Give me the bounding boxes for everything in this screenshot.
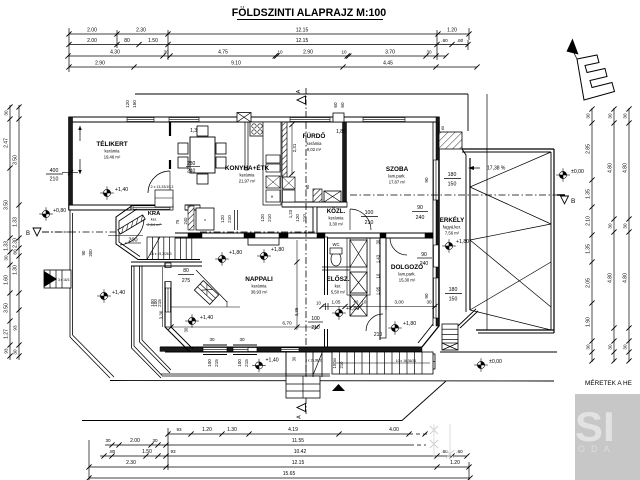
svg-text:30: 30 — [586, 344, 591, 350]
svg-text:90: 90 — [417, 205, 423, 211]
balcony ramp edge diagonal — [458, 309, 476, 326]
svg-text:.60: .60 — [456, 449, 463, 454]
svg-text:4.80: 4.80 — [608, 163, 614, 173]
ramp slope label 17,38% — [468, 166, 474, 170]
level marker pm0,00 right — [556, 168, 570, 182]
wall interior telikert konyha divider — [169, 122, 171, 136]
chair left 2 — [178, 157, 188, 168]
svg-text:A: A — [297, 415, 303, 419]
chair right 1 — [216, 143, 226, 154]
svg-text:30: 30 — [333, 358, 337, 362]
telikert step small — [155, 190, 173, 207]
svg-text:150: 150 — [449, 297, 458, 303]
svg-text:60: 60 — [333, 102, 338, 108]
svg-text:30: 30 — [13, 349, 18, 355]
right dimension chain 2 — [613, 108, 615, 362]
wc toilet — [331, 252, 341, 266]
top dimension chain row 3 — [68, 55, 446, 57]
roof overhang outline above — [135, 93, 468, 95]
balcony outline erkely — [462, 148, 554, 150]
svg-text:120: 120 — [260, 214, 265, 222]
svg-text:3 x 15,38/31: 3 x 15,38/31 — [305, 359, 323, 363]
svg-text:200: 200 — [128, 238, 137, 244]
svg-text:ELŐSZ.: ELŐSZ. — [326, 274, 349, 283]
svg-text:60: 60 — [441, 126, 445, 130]
svg-text:WC: WC — [333, 242, 340, 247]
interior dim vertical furdo 2,31 — [291, 124, 293, 175]
bottom dimension chain row 1 — [168, 433, 409, 435]
terrace outline diagonal southwest — [70, 337, 110, 378]
svg-text:1,05: 1,05 — [332, 300, 341, 305]
svg-text:15,30 m²: 15,30 m² — [399, 278, 416, 283]
bottom dimension block boundary lines — [88, 440, 90, 480]
svg-text:93: 93 — [13, 325, 18, 331]
svg-text:2.00: 2.00 — [130, 438, 140, 444]
svg-text:210: 210 — [50, 177, 59, 183]
door szoba balcony 90/240 — [434, 245, 439, 267]
wall exterior top — [69, 117, 439, 122]
svg-text:2.30: 2.30 — [136, 28, 146, 34]
svg-text:1,23: 1,23 — [288, 209, 293, 218]
svg-text:210: 210 — [339, 361, 344, 369]
kra door swing arc — [120, 219, 144, 245]
kra door dim 200 — [108, 235, 143, 237]
svg-text:210: 210 — [311, 325, 320, 331]
door gap nappali west 80 — [164, 268, 172, 282]
svg-text:1.35: 1.35 — [586, 189, 592, 199]
door dolgozo north arc — [390, 238, 407, 255]
wall interior hall spine y233 — [175, 232, 433, 234]
svg-text:80: 80 — [13, 249, 18, 255]
svg-text:3,35: 3,35 — [294, 307, 299, 316]
svg-text:30: 30 — [586, 113, 591, 119]
pillar hatched top right — [439, 132, 462, 149]
svg-text:TÉLIKERT: TÉLIKERT — [96, 139, 127, 148]
wall kra stair block south — [131, 261, 202, 263]
furdo washer boxes — [283, 177, 296, 189]
svg-text:FÖLDSZINTI ALAPRAJZ M:100: FÖLDSZINTI ALAPRAJZ M:100 — [232, 6, 387, 19]
svg-text:200: 200 — [88, 249, 93, 257]
svg-text:100: 100 — [207, 359, 212, 367]
svg-text:3,30: 3,30 — [159, 310, 164, 319]
wardrobe X box 2 — [350, 272, 367, 293]
svg-text:lam.park.: lam.park. — [388, 174, 405, 179]
svg-text:SI: SI — [575, 403, 615, 450]
window boxes left of entry — [248, 348, 257, 352]
svg-text:30: 30 — [184, 327, 189, 332]
svg-text:7,56 m²: 7,56 m² — [445, 231, 460, 236]
kitchen stove — [250, 122, 264, 136]
window nappali south 2 — [233, 348, 257, 352]
wall interior konyha west partial — [245, 122, 248, 170]
stair terrace left small — [44, 270, 71, 288]
svg-text:60: 60 — [340, 102, 345, 108]
pillar top wall 60x60 — [333, 113, 344, 122]
kra cabinet box — [196, 208, 214, 230]
stair balcony small — [442, 324, 458, 350]
svg-text:210: 210 — [302, 214, 307, 222]
svg-text:1.33: 1.33 — [13, 217, 19, 227]
top dimension chain row 1 — [69, 33, 469, 35]
svg-text:3,00: 3,00 — [394, 300, 404, 306]
svg-text:100: 100 — [311, 316, 320, 322]
svg-text:16 x 19,3/26,3: 16 x 19,3/26,3 — [150, 252, 172, 256]
level marker +0,80 left — [39, 207, 53, 221]
wall dolgozo southeast chamfer — [422, 326, 439, 347]
svg-text:1.20: 1.20 — [450, 460, 460, 466]
svg-text:30: 30 — [292, 356, 297, 361]
svg-text:90: 90 — [421, 252, 427, 258]
svg-text:1.60: 1.60 — [4, 275, 10, 285]
wall hatched konyha furdo divider — [282, 122, 287, 177]
svg-text:2 x 13,33/19,3: 2 x 13,33/19,3 — [151, 185, 174, 189]
door gap elosz west — [324, 295, 328, 329]
svg-text:+1,80: +1,80 — [346, 306, 359, 312]
wall interior furdo szoba divider — [343, 122, 347, 207]
section line A-A vertical — [305, 122, 307, 398]
window szoba right 180/150 — [434, 160, 439, 200]
svg-text:1.27: 1.27 — [4, 329, 10, 339]
svg-text:2.30: 2.30 — [126, 460, 136, 466]
wall kra north east piece — [185, 205, 200, 210]
svg-text:60: 60 — [354, 300, 359, 305]
wardrobe X box 3 — [350, 295, 367, 316]
wall nappali west — [165, 263, 171, 327]
svg-text:80: 80 — [183, 268, 189, 274]
svg-text:11.55: 11.55 — [292, 438, 304, 444]
svg-text:17,87 m²: 17,87 m² — [389, 180, 406, 185]
svg-text:+1,40: +1,40 — [112, 290, 125, 296]
terrace outline outer left — [69, 210, 71, 337]
svg-text:4.00: 4.00 — [389, 427, 399, 433]
entrance arrow filled — [332, 384, 345, 391]
wardrobe X box 1 — [350, 240, 367, 267]
svg-text:2.47: 2.47 — [4, 138, 10, 148]
svg-text:15.65: 15.65 — [283, 471, 296, 477]
level marker +1,80 elosz south — [332, 306, 346, 320]
entry porch walls — [285, 352, 287, 376]
svg-text:10: 10 — [376, 273, 381, 278]
right dimension chain 3 — [628, 108, 630, 362]
svg-text:180: 180 — [449, 287, 458, 293]
wall dolgozo west — [380, 238, 386, 338]
svg-text:+1,40: +1,40 — [200, 315, 213, 321]
interior dim vertical nappali 3,30 — [162, 267, 164, 327]
window nappali west 100/215 — [166, 288, 171, 312]
stair straight kra — [146, 237, 148, 260]
svg-text:210: 210 — [365, 220, 374, 226]
svg-text:90: 90 — [424, 293, 429, 299]
svg-text:120: 120 — [220, 215, 225, 223]
svg-text:4.45: 4.45 — [383, 61, 393, 67]
svg-text:.60: .60 — [457, 38, 464, 43]
svg-text:90: 90 — [81, 250, 86, 255]
svg-text:lam.park.: lam.park. — [398, 272, 415, 277]
svg-text:30: 30 — [608, 223, 613, 229]
wall kra block outline — [116, 205, 200, 260]
svg-text:1.35: 1.35 — [586, 244, 592, 254]
svg-text:9,02 m²: 9,02 m² — [307, 147, 322, 152]
door kozl szoba arc — [350, 209, 371, 230]
svg-text:215: 215 — [244, 359, 249, 367]
svg-text:240: 240 — [183, 217, 188, 225]
svg-text:+1,40: +1,40 — [115, 187, 128, 193]
kitchen counter strip — [263, 122, 281, 205]
svg-text:1.50: 1.50 — [142, 449, 152, 455]
svg-text:93: 93 — [4, 348, 9, 354]
svg-text:2.85: 2.85 — [586, 144, 592, 154]
wall wardrobe column — [347, 238, 350, 295]
svg-text:4.80: 4.80 — [623, 273, 629, 283]
svg-text:1,43: 1,43 — [376, 254, 381, 263]
level marker +1,40 nappali — [185, 314, 199, 328]
svg-text:2.10: 2.10 — [586, 216, 592, 226]
balcony ramp zigzag hatch — [470, 152, 551, 187]
svg-text:NAPPALI: NAPPALI — [245, 276, 273, 283]
svg-text:30: 30 — [376, 239, 381, 244]
section line B-B left segment — [42, 231, 118, 233]
svg-text:4.75: 4.75 — [218, 50, 228, 56]
svg-text:21,97 m²: 21,97 m² — [239, 179, 256, 184]
svg-text:.60: .60 — [441, 38, 448, 43]
stair south wide — [332, 352, 433, 374]
top dimension chain row 2 — [69, 44, 468, 46]
svg-text:kerámia: kerámia — [329, 216, 345, 221]
chimney box top wall — [237, 113, 251, 123]
wall wc south — [322, 266, 350, 268]
section line B-B right segment — [350, 194, 556, 196]
level marker +1,80 hall left — [215, 252, 229, 266]
left dimension chain outer — [9, 105, 11, 360]
svg-text:±0,00: ±0,00 — [571, 169, 584, 175]
svg-text:12.15: 12.15 — [296, 38, 309, 44]
svg-text:kerámia: kerámia — [252, 284, 268, 289]
svg-text:30: 30 — [623, 344, 628, 350]
svg-text:+1,80: +1,80 — [229, 250, 242, 256]
section marker A bottom — [305, 398, 307, 414]
chair right 2 — [216, 157, 226, 168]
level marker +1,80 dolgozo — [388, 321, 402, 335]
kitchen appliance boxes — [266, 176, 280, 188]
svg-text:2,31: 2,31 — [292, 143, 297, 152]
svg-text:30: 30 — [152, 438, 158, 443]
svg-text:215: 215 — [214, 359, 219, 367]
svg-text:120: 120 — [295, 214, 300, 222]
terrace outline south lower — [110, 378, 554, 381]
svg-text:30: 30 — [4, 255, 9, 261]
window top furdo 1,80 — [290, 118, 330, 122]
svg-text:100: 100 — [365, 210, 374, 216]
svg-text:30: 30 — [608, 113, 613, 119]
fireplace chimney box — [194, 281, 218, 305]
svg-text:93: 93 — [176, 427, 182, 432]
svg-text:10: 10 — [362, 300, 367, 305]
svg-text:x: x — [204, 217, 206, 222]
terrace apron outline lowest — [82, 420, 402, 422]
svg-text:240: 240 — [416, 215, 425, 221]
svg-text:2.30: 2.30 — [13, 238, 19, 248]
nappali floor step edge — [171, 306, 240, 308]
svg-text:6,70: 6,70 — [282, 321, 292, 327]
level marker +1,40 south wall — [252, 359, 266, 373]
section marker B right — [561, 196, 569, 204]
wall interior furdo south — [282, 202, 347, 207]
svg-text:2.90: 2.90 — [95, 61, 105, 67]
svg-text:30: 30 — [426, 50, 432, 55]
wall exterior right szoba — [432, 122, 434, 326]
svg-text:10: 10 — [277, 50, 283, 55]
bottom dimension chain row 4 — [89, 466, 469, 468]
svg-text:4.30: 4.30 — [110, 50, 120, 56]
svg-text:5,50 m²: 5,50 m² — [331, 290, 346, 295]
window top 1,30 konyha — [169, 118, 199, 122]
level marker +1,80 hall right — [257, 249, 271, 263]
door elosz dolgozo arc — [366, 314, 383, 331]
interior dim line elosz dolgozo — [322, 306, 437, 308]
svg-text:90: 90 — [424, 177, 429, 183]
level marker +1,40 terrace left — [97, 289, 111, 303]
svg-text:FÜRDŐ: FÜRDŐ — [303, 131, 326, 140]
svg-text:100: 100 — [153, 299, 158, 307]
balcony roof edge vertical — [486, 94, 488, 330]
window telikert left 400/210 — [62, 172, 78, 174]
svg-text:150: 150 — [132, 100, 137, 108]
window top szoba — [363, 118, 405, 122]
svg-text:2.00: 2.00 — [87, 38, 97, 44]
telikert opening arrows — [79, 126, 81, 174]
bottom dimension chain row 2 — [105, 444, 410, 446]
svg-text:30: 30 — [608, 344, 613, 350]
svg-text:B: B — [571, 198, 575, 205]
kra door leaf hatched diagonal — [118, 215, 145, 234]
svg-text:150: 150 — [448, 182, 457, 188]
bottom dimension chain row 5 — [89, 477, 470, 479]
svg-text:1,80: 1,80 — [336, 129, 346, 135]
svg-text:MÉRETEK A HE: MÉRETEK A HE — [585, 378, 632, 387]
svg-text:30: 30 — [426, 300, 432, 305]
wall exterior left telikert — [69, 117, 73, 210]
svg-text:17,38 %: 17,38 % — [487, 166, 506, 172]
wall nappali south — [160, 347, 422, 351]
svg-text:120: 120 — [125, 100, 130, 108]
svg-text:10.42: 10.42 — [294, 449, 307, 455]
svg-text:12.15: 12.15 — [296, 28, 309, 34]
svg-text:30: 30 — [105, 438, 111, 443]
svg-text:3,30 m²: 3,30 m² — [329, 222, 344, 227]
svg-text:KÖZL.: KÖZL. — [327, 208, 346, 215]
entry door opening in south wall — [281, 348, 299, 352]
svg-text:180: 180 — [448, 172, 457, 178]
svg-text:19,46 m²: 19,46 m² — [104, 155, 121, 160]
svg-text:275: 275 — [182, 278, 191, 284]
svg-text:10: 10 — [341, 50, 347, 55]
svg-text:DOLGOZÓ: DOLGOZÓ — [391, 262, 423, 271]
right dimension chain 1 — [591, 108, 593, 362]
bottom dimension chain row 3 — [100, 455, 467, 457]
svg-text:93: 93 — [170, 449, 176, 454]
svg-text:3.70: 3.70 — [385, 50, 395, 56]
svg-text:1.50: 1.50 — [148, 38, 158, 44]
svg-text:4.19: 4.19 — [288, 427, 298, 433]
interior dim line nappali 6,70 — [171, 326, 317, 328]
svg-text:1.30: 1.30 — [13, 265, 19, 275]
faint grey marks near watermark — [430, 424, 454, 460]
svg-text:2.05: 2.05 — [586, 278, 592, 288]
svg-text:210: 210 — [374, 332, 383, 338]
level marker +1,40 telikert — [100, 186, 114, 200]
svg-text:75: 75 — [175, 219, 180, 224]
furdo wardrobe box — [324, 191, 341, 202]
interior dim vertical nappali 3,35 — [296, 240, 298, 330]
svg-text:9.10: 9.10 — [231, 61, 241, 67]
level marker +1,80 erkely — [442, 239, 456, 253]
window nappali south 1 — [203, 348, 227, 352]
svg-text:+1,40: +1,40 — [266, 358, 279, 364]
svg-text:38,93 m²: 38,93 m² — [251, 290, 268, 295]
svg-text:A: A — [296, 89, 302, 93]
svg-text:210: 210 — [267, 214, 272, 222]
svg-text:210: 210 — [227, 215, 232, 223]
svg-text:+0,80: +0,80 — [53, 208, 66, 214]
window top 120/150 — [127, 118, 154, 122]
svg-text:3.50: 3.50 — [4, 200, 10, 210]
fireplace flue diagonal — [196, 270, 227, 302]
wall nappali southwest chamfer — [165, 327, 190, 352]
kitchen sink — [266, 155, 280, 163]
top dimension block boundary lines — [68, 28, 70, 72]
planter box right — [422, 354, 435, 369]
left dimension chain inner — [18, 105, 20, 360]
svg-text:10 x 16,36/31: 10 x 16,36/31 — [396, 359, 417, 363]
svg-text:KONYHA+ÉTK: KONYHA+ÉTK — [225, 163, 270, 172]
svg-text:30: 30 — [4, 110, 9, 116]
hatched strip kra east — [188, 206, 194, 230]
wall kozl west — [313, 207, 317, 233]
svg-text:80: 80 — [124, 38, 130, 44]
svg-text:kerámia: kerámia — [240, 173, 256, 178]
north arrow E symbol — [567, 39, 579, 55]
svg-text:100: 100 — [237, 359, 242, 367]
svg-text:SZOBA: SZOBA — [386, 166, 409, 173]
svg-text:+1,80: +1,80 — [456, 239, 469, 245]
hall niche below spine — [248, 238, 279, 245]
svg-text:±0,00: ±0,00 — [489, 359, 502, 365]
svg-text:30: 30 — [239, 337, 245, 342]
furdo bench hatched — [313, 189, 322, 202]
svg-text:fagyá.ker.: fagyá.ker. — [443, 225, 461, 230]
window dolgozo right 180/150 — [434, 278, 439, 318]
svg-text:1.20: 1.20 — [447, 28, 457, 34]
chair bottom — [197, 174, 208, 184]
svg-text:ERKÉLY: ERKÉLY — [440, 216, 465, 224]
svg-text:30: 30 — [209, 337, 215, 342]
svg-text:+1,80: +1,80 — [271, 247, 284, 253]
svg-text:30: 30 — [623, 223, 628, 229]
level marker pm0,00 terrace — [474, 358, 488, 372]
dining table — [190, 137, 215, 173]
svg-text:4.80: 4.80 — [608, 273, 614, 283]
section marker A top — [305, 88, 307, 122]
svg-text:.80: .80 — [109, 449, 116, 454]
chair top — [197, 126, 208, 136]
terrace upper step edge right — [440, 351, 557, 353]
stair entry steps — [286, 376, 320, 398]
door telikert konyha arc — [148, 171, 170, 193]
svg-text:4.80: 4.80 — [623, 163, 629, 173]
svg-text:kerámia: kerámia — [307, 141, 323, 146]
window kra north — [133, 206, 170, 209]
svg-text:B: B — [26, 231, 30, 237]
